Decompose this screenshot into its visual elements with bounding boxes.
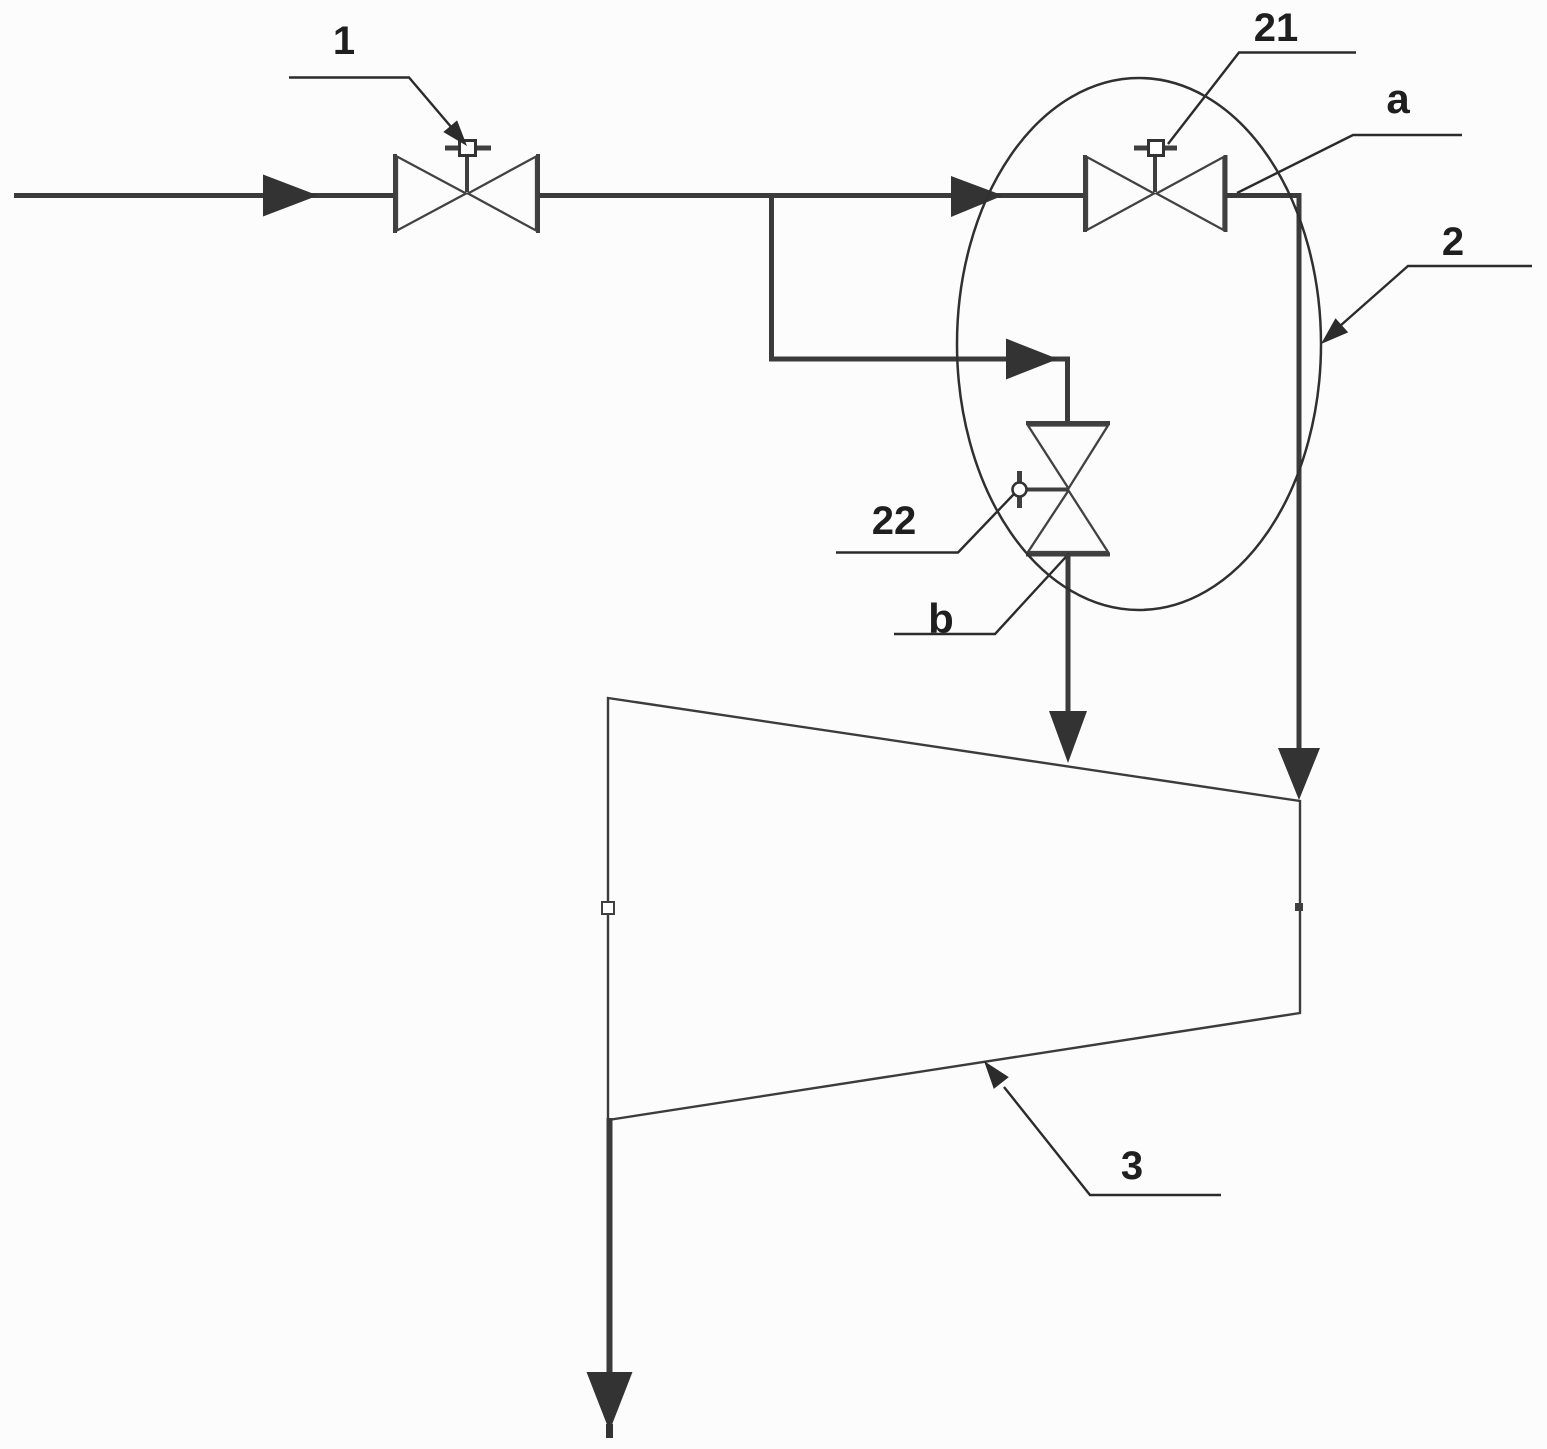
ellipse 2 (grouping circle around valves 21 and 22) <box>957 78 1321 610</box>
flow arrow on inlet pipe <box>263 175 318 217</box>
leader line for label 3 (with arrowhead to turbine bottom edge) <box>984 1061 1221 1195</box>
wire: pipe from valve 21 to right elbow <box>1226 193 1302 198</box>
svg-text:a: a <box>1386 75 1410 122</box>
svg-text:2: 2 <box>1442 220 1464 264</box>
wire: right vertical pipe down to turbine <box>1297 193 1302 752</box>
flow arrow before valve 21 <box>951 176 1003 217</box>
valve 21 (gate valve with T-handle) <box>1085 141 1226 233</box>
valve 22 (vertical gate valve with side handle) <box>1013 423 1111 555</box>
flow arrow on branch pipe <box>1006 339 1058 380</box>
leader line for label 2 (with arrowhead to ellipse) <box>1321 266 1532 344</box>
svg-text:3: 3 <box>1121 1144 1143 1188</box>
leader line for node b <box>894 554 1069 635</box>
wire: main pipe between valve 1 and valve 21 <box>539 193 1086 198</box>
exhaust arrow tail stub <box>606 1424 613 1438</box>
flow arrow into turbine right inlet <box>1278 748 1320 800</box>
turbine 3 (trapezoid body) <box>608 698 1300 1120</box>
svg-text:21: 21 <box>1254 6 1299 50</box>
wire: inlet pipe (left horizontal main line) <box>14 193 396 198</box>
leader line for label 22 <box>836 494 1014 553</box>
shaft marker on turbine right edge <box>1295 903 1303 911</box>
leader line for label 21 <box>1168 53 1356 145</box>
valve 1 (gate valve with T-handle) <box>395 141 538 234</box>
leader line for node a <box>1237 135 1462 193</box>
wire: turbine exhaust pipe <box>607 1118 613 1376</box>
svg-text:1: 1 <box>333 19 355 63</box>
flow arrow at exhaust outlet <box>587 1372 633 1431</box>
leader line for label 1 (with arrowhead to valve 1 handle) <box>289 78 467 147</box>
shaft marker on turbine left edge <box>602 902 614 914</box>
svg-text:22: 22 <box>872 499 917 543</box>
wire: branch pipe (down, right, down to valve 22) <box>772 195 1068 423</box>
wire: pipe from valve 22 down to turbine <box>1066 554 1071 716</box>
flow arrow into turbine left inlet <box>1049 711 1087 763</box>
